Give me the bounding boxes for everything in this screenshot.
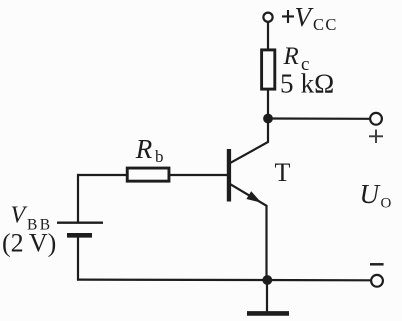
svg-text:CC: CC <box>313 15 338 34</box>
resistor Rc <box>262 50 275 89</box>
svg-text:(2 V): (2 V) <box>2 229 56 258</box>
svg-text:5: 5 <box>280 69 294 99</box>
battery VBB positive plate (long thin) <box>57 221 103 223</box>
terminal output + (open circle) <box>370 113 382 125</box>
svg-text:R: R <box>283 43 299 70</box>
wire Rc to collector node <box>267 89 269 119</box>
svg-text:T: T <box>275 158 291 187</box>
wire Vcc terminal to Rc <box>267 22 269 50</box>
label VBB <box>11 202 53 233</box>
resistor Rb <box>127 168 169 181</box>
wire left vertical (corner to battery +) <box>77 174 79 223</box>
wire collector lead (vertical + diagonal into base bar) <box>231 119 269 163</box>
terminal output - (open circle) <box>371 275 383 287</box>
label Rb <box>135 134 164 166</box>
svg-text:V: V <box>11 202 28 228</box>
node B (emitter / ground junction dot) <box>262 275 272 285</box>
battery VBB negative plate (short thick) <box>67 233 92 238</box>
wire base (left loop top) from corner to base bar <box>77 174 227 176</box>
wire junction to ground <box>266 280 268 312</box>
svg-text:b: b <box>155 147 164 166</box>
transistor T base bar <box>227 149 231 202</box>
svg-text:O: O <box>381 196 392 212</box>
wire bottom rail <box>77 279 370 282</box>
svg-text:U: U <box>360 179 381 209</box>
transistor T emitter lead (diagonal + arrow + vertical) <box>231 184 267 280</box>
wire collector node to output + terminal <box>268 117 370 120</box>
wire battery - down to bottom rail <box>77 235 79 280</box>
label + (output polarity) <box>369 130 383 143</box>
node A (collector node dot) <box>263 114 273 124</box>
terminal +Vcc (open circle) <box>263 13 272 22</box>
ground <box>247 311 289 316</box>
label +Vcc <box>282 2 338 34</box>
svg-text:R: R <box>135 134 153 164</box>
label Uo <box>360 179 392 212</box>
svg-text:kΩ: kΩ <box>301 69 335 99</box>
label Rc <box>283 43 310 75</box>
label - (output polarity) <box>370 263 384 266</box>
